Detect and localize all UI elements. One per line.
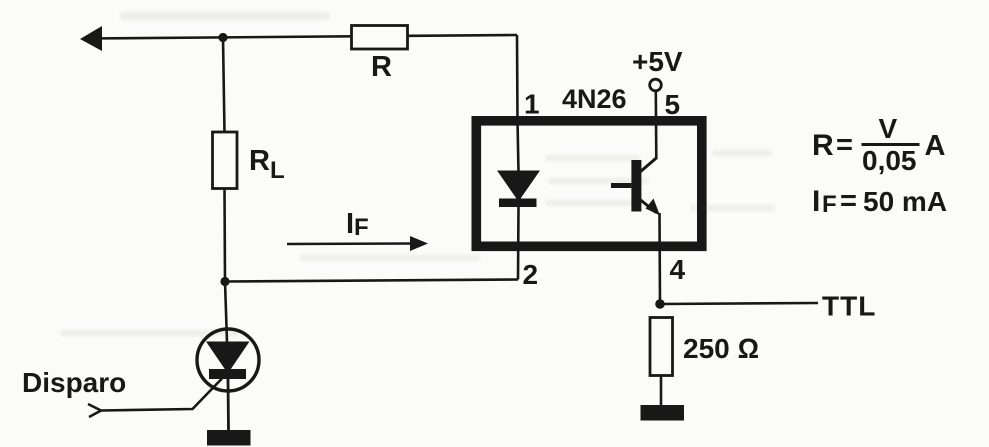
LED anode wire inside box <box>518 120 519 172</box>
LED triangle <box>497 171 540 202</box>
svg-text:A: A <box>925 130 946 162</box>
svg-text:4N26: 4N26 <box>562 84 627 114</box>
IF arrow <box>287 242 416 245</box>
node: junction top rail / RL <box>218 33 227 42</box>
gate terminal arrow <box>88 404 101 417</box>
resistor R <box>352 26 408 50</box>
faint scan smudges <box>60 12 775 336</box>
svg-text:=: = <box>840 185 857 217</box>
wire: TTL output <box>660 303 818 304</box>
svg-text:1: 1 <box>524 89 540 120</box>
svg-text:+5V: +5V <box>632 46 683 77</box>
svg-text:F: F <box>822 191 837 218</box>
wire: 250 ohm to ground <box>660 376 663 407</box>
wire: junction to SCR anode <box>225 282 227 343</box>
svg-text:2: 2 <box>523 259 539 290</box>
wire: corner down to pin 1 <box>516 35 519 122</box>
node: junction emitter / TTL / 250ohm <box>655 299 665 309</box>
fraction bar <box>862 143 920 146</box>
SCR circle <box>197 329 259 391</box>
svg-text:R: R <box>371 51 392 83</box>
svg-text:Disparo: Disparo <box>22 367 126 398</box>
gate wire <box>101 379 222 411</box>
svg-text:R: R <box>812 129 834 162</box>
transistor base lead <box>611 183 631 188</box>
arrow terminal (left-pointing) <box>80 26 102 51</box>
svg-text:=: = <box>836 129 853 161</box>
wire: SCR cathode to ground <box>227 379 230 431</box>
wire: +5V to collector <box>654 91 657 159</box>
optocoupler 4N26 body <box>476 121 702 247</box>
resistor RL <box>213 132 238 189</box>
wire: pin 2 horizontal <box>225 280 518 282</box>
node: junction RL / pin2 wire / SCR <box>220 277 229 286</box>
+5V terminal circle <box>650 79 662 91</box>
wire: RL branch vertical (top) <box>223 38 225 134</box>
SCR triangle <box>206 342 250 374</box>
LED cathode bar <box>499 199 537 208</box>
wire: emitter to junction <box>658 213 661 304</box>
transistor emitter diagonal with arrow <box>640 200 656 213</box>
svg-text:5: 5 <box>665 89 681 120</box>
transistor base bar <box>631 160 641 212</box>
transistor collector diagonal <box>640 158 656 172</box>
SCR cathode bar <box>209 369 246 379</box>
svg-text:50 mA: 50 mA <box>863 186 947 217</box>
svg-text:4: 4 <box>670 254 686 285</box>
wire: LED cathode to pin 2 <box>517 207 520 280</box>
svg-text:F: F <box>354 214 369 241</box>
ground (right) <box>641 405 685 421</box>
wire: top rail from arrow to corner <box>86 35 517 39</box>
svg-text:250 Ω: 250 Ω <box>683 333 759 364</box>
svg-text:TTL: TTL <box>822 291 876 322</box>
wire: RL to bottom junction <box>223 188 226 282</box>
svg-text:0,05: 0,05 <box>862 145 917 176</box>
resistor 250 ohm <box>650 318 673 376</box>
svg-text:I: I <box>346 208 354 240</box>
svg-text:I: I <box>812 185 820 218</box>
ground (left) <box>207 430 251 446</box>
svg-text:V: V <box>879 113 898 144</box>
